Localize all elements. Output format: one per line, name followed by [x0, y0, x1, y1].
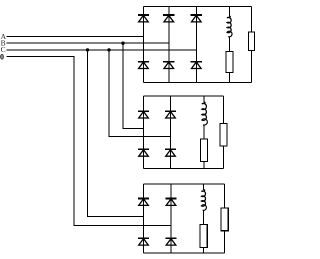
svg-text:0: 0 [0, 52, 4, 61]
diode Vbridge24 (bottom of leg 2) [165, 149, 176, 156]
wire L2 to R3 [203, 125, 205, 139]
wire R5 to bottom rail [203, 247, 205, 253]
inductor L3 [201, 190, 206, 212]
junction dot on C (to bottom bridge) [86, 48, 89, 51]
wire L1 branch top [228, 7, 230, 17]
diode Vbridge34 (bottom of leg 2) [165, 238, 176, 245]
wire phase C horizontal [7, 49, 197, 51]
diode Vbridge12 (bottom of leg 1) [138, 62, 149, 69]
wire tap from B down to middle bridge leg1 [123, 43, 144, 128]
wire bridge1 bridge leg 2 [168, 7, 170, 83]
resistor R2 (right load) [248, 32, 254, 50]
resistor R5 (series with L3) [200, 225, 207, 248]
diode Vbridge23 (top of leg 2) [165, 111, 176, 118]
wire tap from C down to middle bridge leg2 [109, 50, 171, 136]
wire bridge3 bridge leg 2 [170, 184, 172, 253]
wire neutral 0 horizontal+drop to bottom bridge leg2 [7, 57, 172, 226]
wire L1 to R1 [228, 37, 230, 51]
wire L2 branch top [203, 96, 205, 103]
wire bridge2 top rail [144, 95, 224, 97]
junction dot on B [121, 42, 124, 45]
wire load branch right bottom (module 3) [224, 231, 226, 253]
wire load branch right top [251, 7, 253, 33]
wire bridge1 bridge leg 3 [195, 7, 197, 83]
wire bridge3 bottom rail [144, 252, 225, 254]
wire load branch right top (module 2) [223, 96, 225, 124]
wire bridge3 bridge leg 1 [143, 184, 145, 253]
wire bridge2 bridge leg 2 [170, 96, 172, 169]
wire L3 branch top [203, 184, 205, 190]
inductor L2 [202, 102, 208, 126]
diode Vbridge32 (bottom of leg 1) [138, 238, 149, 245]
wire load branch right top (module 3) [224, 184, 226, 208]
wire phase A horizontal [7, 36, 144, 38]
diode Vbridge21 (top of leg 1) [138, 111, 149, 118]
diode Vbridge15 (top of leg 3) [191, 15, 202, 22]
wire R3 to bottom rail [203, 162, 205, 169]
wire phase B horizontal [7, 42, 169, 44]
resistor R3 (series with L2) [201, 139, 208, 161]
wire bridge3 top rail [144, 183, 225, 185]
wire R1 to bottom rail [228, 73, 230, 83]
diode Vbridge31 (top of leg 1) [138, 199, 149, 206]
wire load branch right bottom [251, 50, 253, 82]
wire load branch right bottom (module 2) [223, 146, 225, 168]
diode Vbridge13 (top of leg 2) [163, 15, 174, 22]
wire bridge1 bottom rail [143, 81, 251, 83]
resistor R1 (series with L1) [226, 52, 233, 73]
junction dot on C (to middle bridge) [107, 48, 110, 51]
wire bridge1 bridge leg 1 [142, 7, 144, 83]
diode Vbridge14 (bottom of leg 2) [163, 62, 174, 69]
diode Vbridge11 (top of leg 1) [138, 15, 149, 22]
resistor R4 (right load module 2) [220, 124, 227, 146]
inductor L1 [227, 16, 232, 38]
wire tap from C down to bottom bridge leg1 [88, 50, 144, 217]
wire bridge1 top rail [143, 6, 251, 8]
diode Vbridge33 (top of leg 2) [165, 199, 176, 206]
wire bridge2 bridge leg 1 [143, 96, 145, 169]
wire bridge2 bottom rail [144, 167, 224, 169]
diode Vbridge22 (bottom of leg 1) [138, 149, 149, 156]
diode Vbridge16 (bottom of leg 3) [191, 62, 202, 69]
wire L3 to R5 [203, 211, 205, 225]
resistor R6 (right load module 3) [221, 208, 228, 231]
